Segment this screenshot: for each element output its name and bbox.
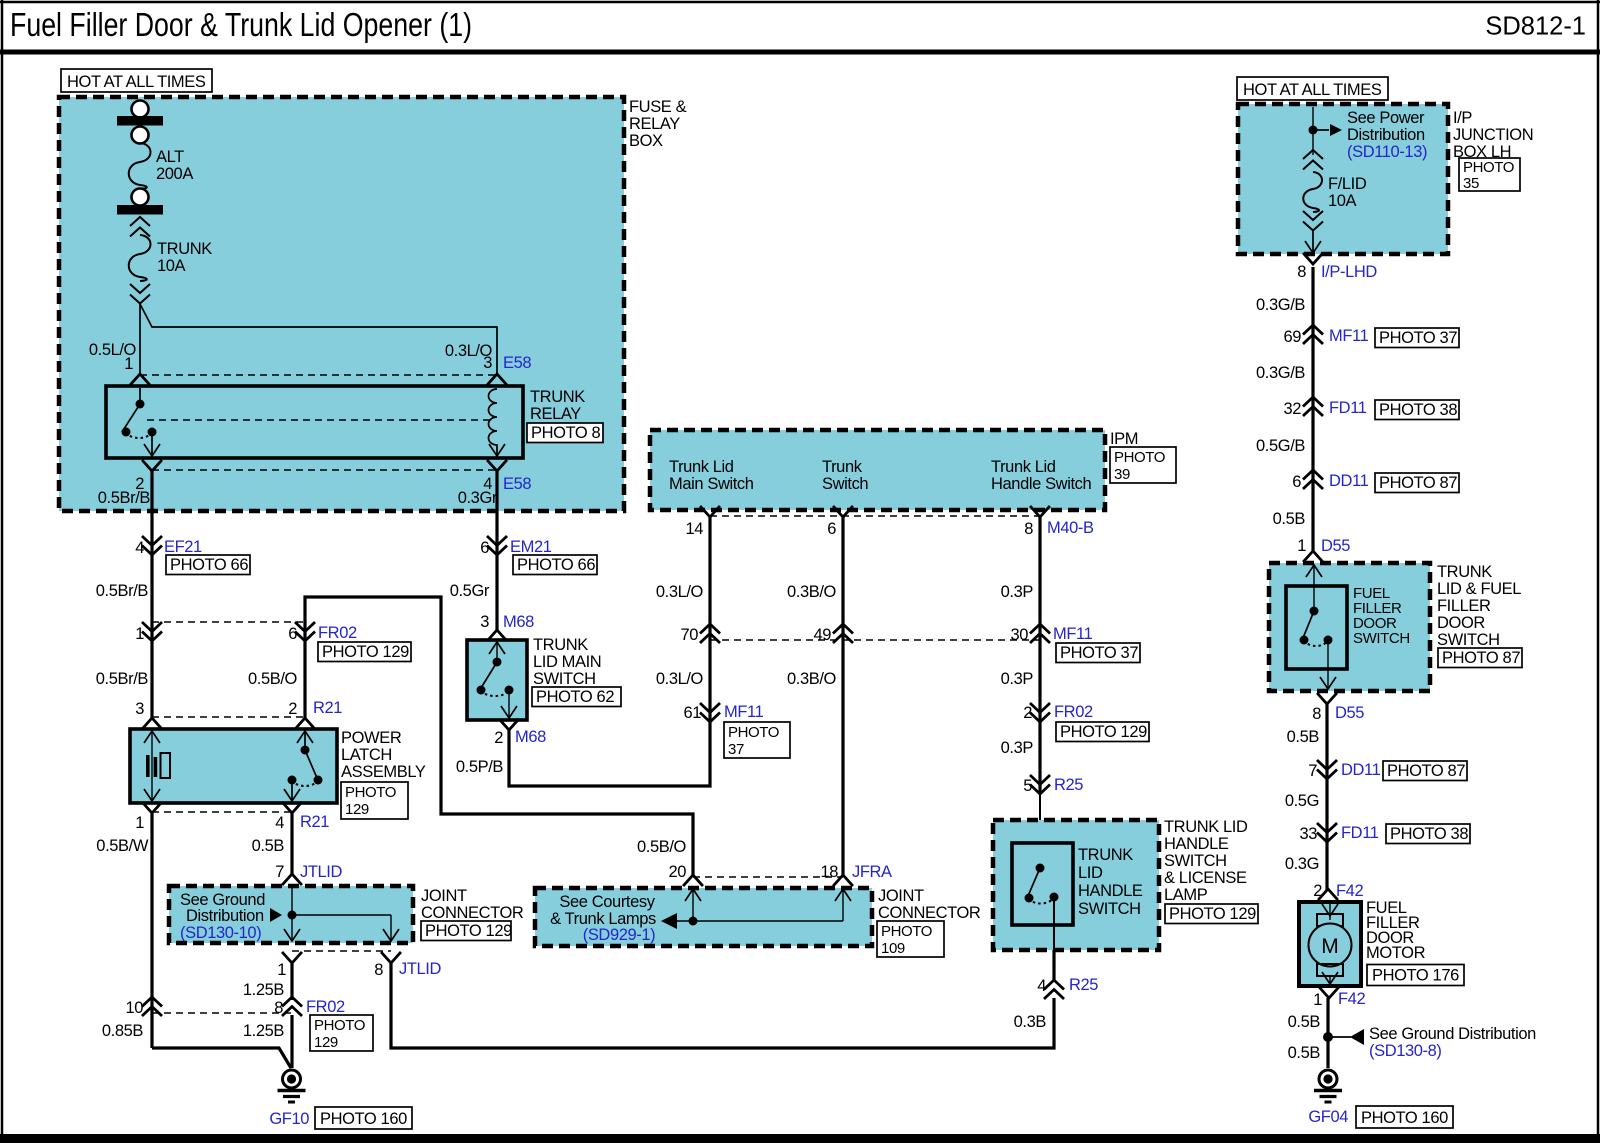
connector dashed line E58 bottom	[152, 469, 497, 471]
svg-text:ASSEMBLY: ASSEMBLY	[341, 763, 426, 781]
svg-text:8: 8	[1312, 705, 1321, 723]
label box PHOTO 129 (FR02 bottom)	[310, 1015, 373, 1051]
label HOT AT ALL TIMES (right)	[1237, 77, 1388, 100]
svg-text:PHOTO: PHOTO	[1463, 159, 1514, 176]
svg-text:JUNCTION: JUNCTION	[1453, 126, 1533, 144]
svg-text:(SD110-13): (SD110-13)	[1347, 143, 1427, 161]
svg-text:PHOTO: PHOTO	[1114, 449, 1165, 466]
wire R21-4 down to JTLID-7	[290, 813, 293, 876]
wire relay pin2 down to EF21	[150, 471, 153, 718]
svg-text:LAMP: LAMP	[1164, 886, 1208, 904]
wire D55-8 to DD11-7	[1325, 704, 1328, 890]
label box PHOTO 160 (GF04)	[1356, 1106, 1453, 1128]
junction box internal feed	[1309, 107, 1343, 155]
svg-text:0.5B: 0.5B	[1287, 728, 1320, 746]
svg-text:0.5Gr: 0.5Gr	[450, 582, 490, 600]
svg-text:RELAY: RELAY	[530, 405, 581, 423]
connector JTLID dashed line (pins 1,8)	[292, 950, 391, 952]
svg-text:& LICENSE: & LICENSE	[1164, 869, 1247, 887]
handle switch contacts	[1025, 864, 1059, 983]
svg-text:69: 69	[1283, 328, 1301, 346]
svg-text:F42: F42	[1338, 990, 1365, 1008]
wire JTLID-1 down to FR02-8	[290, 963, 293, 1000]
wire M68-2 to MF11-61	[509, 640, 710, 786]
wire IPM-14 down	[708, 517, 711, 640]
svg-text:FR02: FR02	[318, 624, 357, 642]
wire split X junction	[140, 303, 497, 375]
wire R25-5 into handle switch	[1039, 794, 1041, 868]
JTLID internal wiring	[270, 888, 399, 941]
svg-text:35: 35	[1463, 175, 1479, 192]
connector dashed line E58 top	[140, 374, 497, 376]
svg-text:JOINT: JOINT	[421, 887, 467, 905]
trunk lid handle switch box	[993, 820, 1159, 950]
svg-text:R21: R21	[300, 813, 329, 831]
svg-text:Trunk Lid: Trunk Lid	[669, 458, 734, 476]
M68 pin 3 caret	[488, 630, 506, 640]
svg-text:BOX: BOX	[629, 132, 663, 150]
svg-text:PHOTO: PHOTO	[881, 923, 932, 940]
svg-text:LATCH: LATCH	[341, 746, 392, 764]
svg-text:PHOTO 87: PHOTO 87	[1442, 649, 1520, 667]
label JOINT CONNECTOR (JFRA)	[878, 887, 981, 922]
svg-text:F42: F42	[1336, 882, 1363, 900]
svg-text:30: 30	[1010, 626, 1028, 644]
label box PHOTO 129 (FR02-2)	[1056, 722, 1149, 742]
label HOT AT ALL TIMES (left)	[61, 69, 212, 92]
svg-text:0.5Br/B: 0.5Br/B	[96, 670, 149, 688]
label See Courtesy & Trunk Lamps (SD929-1)	[550, 893, 656, 944]
label See Ground Distribution (SD130-8)	[1369, 1025, 1536, 1060]
svg-text:PHOTO 38: PHOTO 38	[1390, 825, 1468, 843]
svg-text:PHOTO: PHOTO	[314, 1017, 365, 1034]
wire FR02-10 to ground	[152, 1048, 291, 1068]
IPM connector dashed line M40-B	[710, 515, 1040, 517]
svg-text:18: 18	[820, 863, 838, 881]
svg-text:Main Switch: Main Switch	[669, 475, 754, 493]
latch mechanical symbol	[146, 753, 170, 778]
label FUSE & RELAY BOX	[629, 98, 687, 150]
svg-text:SWITCH: SWITCH	[533, 670, 596, 688]
label See Power Distribution (SD110-13)	[1347, 109, 1427, 161]
svg-text:Trunk: Trunk	[822, 458, 863, 476]
latch feed line with arrows	[144, 731, 160, 801]
R21 pin 3 caret	[143, 718, 161, 728]
svg-text:E58: E58	[503, 354, 531, 372]
svg-text:Fuel Filler Door & Trunk Lid O: Fuel Filler Door & Trunk Lid Opener (1)	[10, 6, 472, 43]
FD11 pin 32 chevron	[1304, 397, 1322, 415]
svg-text:1: 1	[277, 961, 286, 979]
svg-text:61: 61	[683, 704, 701, 722]
svg-text:0.3P: 0.3P	[1001, 739, 1034, 757]
wire R21-1 down to FR02-10	[150, 813, 153, 1048]
svg-text:0.3B/O: 0.3B/O	[787, 670, 837, 688]
svg-text:2: 2	[288, 700, 297, 718]
trunk lid main switch contacts	[477, 642, 518, 718]
ground GF10	[278, 1070, 306, 1102]
svg-text:6: 6	[1292, 473, 1301, 491]
svg-text:R21: R21	[313, 699, 342, 717]
label box PHOTO 37 (MF11-61)	[724, 722, 790, 758]
svg-text:0.5P/B: 0.5P/B	[456, 758, 504, 776]
svg-text:PHOTO 8: PHOTO 8	[531, 424, 601, 442]
svg-text:0.3G/B: 0.3G/B	[1256, 364, 1305, 382]
svg-text:JTLID: JTLID	[300, 863, 342, 881]
svg-text:MF11: MF11	[724, 703, 764, 721]
svg-text:POWER: POWER	[341, 729, 402, 747]
svg-text:0.3Gr: 0.3Gr	[458, 489, 498, 507]
svg-text:0.3B/O: 0.3B/O	[787, 583, 837, 601]
label TRUNK LID HANDLE SWITCH (inside)	[1078, 846, 1143, 918]
connector MF11 dashed line (70,49,30)	[710, 639, 1040, 641]
svg-text:49: 49	[813, 626, 831, 644]
pin 4 caret	[488, 461, 506, 471]
svg-text:PHOTO 62: PHOTO 62	[536, 688, 614, 706]
svg-text:SWITCH: SWITCH	[1164, 852, 1227, 870]
ground GF04	[1314, 1070, 1342, 1102]
svg-text:14: 14	[685, 520, 703, 538]
svg-text:129: 129	[345, 801, 369, 818]
svg-text:CONNECTOR: CONNECTOR	[878, 904, 981, 922]
svg-text:PHOTO 160: PHOTO 160	[320, 1110, 407, 1128]
connector R21 dashed line (pins 1,4)	[152, 811, 292, 813]
fusible link ALT 200A	[117, 101, 193, 215]
svg-text:DD11: DD11	[1341, 761, 1381, 779]
svg-text:FD11: FD11	[1341, 824, 1379, 842]
svg-text:TRUNK: TRUNK	[1078, 846, 1133, 864]
IPM internal label Trunk Lid Handle Switch	[991, 458, 1091, 493]
trunk relay box	[106, 386, 523, 458]
svg-text:PHOTO 129: PHOTO 129	[425, 922, 512, 940]
FD11 pin 33 chevron	[1318, 824, 1336, 842]
svg-text:Handle Switch: Handle Switch	[991, 475, 1091, 493]
svg-text:Trunk Lid: Trunk Lid	[991, 458, 1056, 476]
label box PHOTO 129 (latch)	[341, 782, 408, 819]
R21 pin 1 caret	[143, 803, 161, 813]
pin 1 caret	[131, 374, 149, 384]
MF11 pin 69 chevron	[1304, 325, 1322, 343]
svg-text:FR02: FR02	[1054, 703, 1093, 721]
DD11 pin 7 chevron	[1318, 761, 1336, 779]
courtesy box internal wiring	[661, 889, 851, 929]
svg-text:HOT AT ALL TIMES: HOT AT ALL TIMES	[1243, 81, 1382, 99]
svg-text:20: 20	[668, 863, 686, 881]
svg-text:See Ground Distribution: See Ground Distribution	[1369, 1025, 1536, 1043]
fuse F/LID 10A	[1303, 150, 1367, 253]
I/P junction box LH	[1238, 104, 1448, 254]
svg-text:0.5B: 0.5B	[1273, 510, 1306, 528]
power latch assembly box	[130, 729, 337, 803]
label box PHOTO 38 (FD11-33)	[1386, 824, 1470, 844]
svg-text:8: 8	[374, 961, 383, 979]
svg-text:IPM: IPM	[1110, 430, 1138, 448]
pin 2 caret	[143, 461, 161, 471]
svg-text:M68: M68	[515, 728, 546, 746]
svg-text:TRUNK: TRUNK	[157, 240, 212, 258]
svg-text:SWITCH: SWITCH	[1437, 631, 1500, 649]
svg-text:2: 2	[1023, 704, 1032, 722]
svg-text:3: 3	[480, 613, 489, 631]
svg-text:PHOTO 66: PHOTO 66	[170, 556, 248, 574]
svg-text:SWITCH: SWITCH	[1353, 630, 1410, 647]
connector FR02 dashed line (pins 10,8)	[152, 1012, 292, 1014]
svg-text:M: M	[1321, 935, 1339, 958]
svg-text:HANDLE: HANDLE	[1164, 835, 1229, 853]
svg-text:0.5B: 0.5B	[1288, 1044, 1321, 1062]
svg-text:HOT AT ALL TIMES: HOT AT ALL TIMES	[67, 73, 206, 91]
svg-text:4: 4	[135, 539, 144, 557]
FR02 pin 2 chevron	[1031, 704, 1049, 722]
svg-text:4: 4	[275, 814, 284, 832]
label box PHOTO 87 (switch)	[1438, 648, 1522, 668]
svg-text:R25: R25	[1069, 976, 1098, 994]
svg-text:0.5Br/B: 0.5Br/B	[98, 489, 151, 507]
connector FR02 dashed line (pins 1,6)	[152, 621, 305, 623]
label box PHOTO 129 (FR02)	[318, 642, 411, 662]
svg-text:See Courtesy: See Courtesy	[559, 893, 655, 911]
label I/P JUNCTION BOX LH	[1453, 109, 1533, 161]
svg-text:129: 129	[314, 1034, 338, 1051]
svg-text:MF11: MF11	[1053, 625, 1093, 643]
trunk lid & fuel filler door switch box	[1269, 563, 1430, 691]
label box PHOTO 37 (MF11-30)	[1056, 643, 1140, 663]
trunk lid main switch box	[467, 640, 527, 720]
svg-text:SD812-1: SD812-1	[1485, 13, 1586, 41]
JTLID pin 8 caret	[382, 953, 400, 963]
svg-text:TRUNK: TRUNK	[1437, 563, 1492, 581]
svg-text:0.3P: 0.3P	[1001, 583, 1034, 601]
svg-text:7: 7	[275, 863, 284, 881]
svg-text:1: 1	[1297, 537, 1306, 555]
svg-text:0.5B: 0.5B	[252, 837, 285, 855]
svg-text:PHOTO 160: PHOTO 160	[1361, 1109, 1448, 1127]
svg-text:FR02: FR02	[306, 998, 345, 1016]
svg-text:10: 10	[125, 999, 143, 1017]
wire F42-1 to ground GF04	[1326, 998, 1329, 1068]
svg-text:0.5B/O: 0.5B/O	[637, 838, 687, 856]
svg-text:3: 3	[483, 354, 492, 372]
handle switch inner box	[1012, 843, 1073, 925]
svg-text:Distribution: Distribution	[1347, 126, 1425, 144]
I/P-LHD pin 8 caret	[1304, 254, 1322, 264]
svg-text:0.5B/O: 0.5B/O	[248, 670, 298, 688]
svg-text:1: 1	[1313, 991, 1322, 1009]
svg-text:Distribution: Distribution	[186, 907, 264, 925]
label FUEL FILLER DOOR SWITCH (inside)	[1353, 585, 1410, 647]
svg-text:(SD130-8): (SD130-8)	[1369, 1042, 1442, 1060]
svg-text:Switch: Switch	[822, 475, 868, 493]
svg-text:RELAY: RELAY	[629, 115, 680, 133]
label JOINT CONNECTOR	[421, 887, 524, 922]
label box PHOTO 38 (FD11-32)	[1375, 400, 1459, 420]
svg-text:6: 6	[288, 625, 297, 643]
label box PHOTO 35	[1459, 158, 1520, 192]
svg-text:0.3L/O: 0.3L/O	[656, 583, 704, 601]
IPM pin 8 caret	[1031, 507, 1049, 517]
FR02 pin 6 chevron	[296, 623, 314, 641]
svg-text:TRUNK: TRUNK	[533, 636, 588, 654]
label box PHOTO 8	[527, 423, 603, 443]
svg-text:GF04: GF04	[1308, 1108, 1348, 1126]
svg-text:R25: R25	[1054, 776, 1083, 794]
D55 pin 8 caret	[1318, 694, 1336, 704]
svg-text:See Power: See Power	[1347, 109, 1425, 127]
label box PHOTO 87 (DD11-7)	[1383, 761, 1467, 781]
svg-text:M68: M68	[503, 613, 534, 631]
connector R21 dashed line (pins 3,2)	[152, 716, 305, 718]
label box PHOTO 129 (handle switch)	[1165, 904, 1258, 924]
svg-text:1: 1	[124, 355, 133, 373]
svg-text:0.5B/W: 0.5B/W	[96, 837, 149, 855]
svg-text:PHOTO 38: PHOTO 38	[1379, 401, 1457, 419]
IPM internal label Trunk Lid Main Switch	[669, 458, 754, 493]
svg-text:JTLID: JTLID	[399, 960, 441, 978]
svg-text:109: 109	[881, 940, 905, 957]
label box PHOTO 39	[1110, 447, 1176, 483]
JTLID pin 7 caret	[283, 874, 301, 884]
svg-text:0.3P: 0.3P	[1001, 670, 1034, 688]
MF11 pin 30 chevron	[1031, 624, 1049, 642]
svg-text:5: 5	[1023, 777, 1032, 795]
svg-text:PHOTO 37: PHOTO 37	[1060, 644, 1138, 662]
fuse & relay box	[59, 97, 624, 511]
svg-text:4: 4	[1037, 977, 1046, 995]
wire IPM-8 down	[1038, 517, 1041, 794]
svg-text:6: 6	[480, 539, 489, 557]
connector JFRA dashed line (20,18)	[693, 876, 843, 878]
wire IPM-6 down to JFRA-18	[841, 517, 844, 875]
svg-text:32: 32	[1283, 400, 1301, 418]
ground branch junction	[1323, 1029, 1364, 1045]
wire relay pin4 down to EM21	[495, 471, 498, 630]
svg-text:PHOTO 87: PHOTO 87	[1379, 474, 1457, 492]
label box PHOTO 129 (JTLID)	[421, 921, 512, 941]
svg-text:33: 33	[1299, 825, 1317, 843]
svg-text:JOINT: JOINT	[878, 887, 924, 905]
svg-text:I/P-LHD: I/P-LHD	[1321, 263, 1377, 281]
motor symbol	[1309, 904, 1352, 986]
R25 pin 4 chevron	[1045, 980, 1063, 998]
svg-text:10A: 10A	[157, 257, 186, 275]
svg-text:(SD130-10): (SD130-10)	[180, 924, 261, 942]
svg-text:3: 3	[135, 700, 144, 718]
svg-text:39: 39	[1114, 466, 1130, 483]
svg-text:PHOTO 66: PHOTO 66	[517, 556, 595, 574]
svg-text:DD11: DD11	[1329, 472, 1369, 490]
svg-text:0.5B: 0.5B	[1288, 1013, 1321, 1031]
label box PHOTO 66 (EM21)	[513, 555, 597, 575]
fuel filler door motor box	[1299, 902, 1361, 986]
svg-text:PHOTO 129: PHOTO 129	[1169, 905, 1256, 923]
svg-text:8: 8	[1024, 520, 1033, 538]
svg-text:0.5G: 0.5G	[1285, 792, 1319, 810]
svg-text:0.3L/O: 0.3L/O	[656, 670, 704, 688]
JFRA pin 20 caret	[684, 875, 702, 885]
svg-text:PHOTO: PHOTO	[345, 784, 396, 801]
svg-text:HANDLE: HANDLE	[1078, 882, 1143, 900]
IPM pin 14 caret	[701, 507, 719, 517]
label box PHOTO 37 (MF11-69)	[1375, 328, 1459, 348]
label TRUNK RELAY	[530, 388, 585, 423]
svg-text:2: 2	[494, 729, 503, 747]
fuse TRUNK 10A	[129, 217, 212, 304]
svg-text:6: 6	[827, 520, 836, 538]
svg-text:LID MAIN: LID MAIN	[533, 653, 601, 671]
label box PHOTO 160 (GF10)	[315, 1107, 412, 1129]
R21 pin 2 caret	[296, 718, 314, 728]
svg-text:PHOTO: PHOTO	[728, 724, 779, 741]
connector EF21 chevron	[143, 537, 161, 555]
svg-text:70: 70	[680, 626, 698, 644]
FR02 pin 1 chevron	[143, 623, 161, 641]
svg-text:SWITCH: SWITCH	[1078, 900, 1141, 918]
svg-text:LID: LID	[1078, 864, 1103, 882]
svg-text:EM21: EM21	[510, 538, 552, 556]
svg-text:10A: 10A	[1328, 192, 1357, 210]
IPM pin 6 caret	[834, 507, 852, 517]
see courtesy & trunk lamps box	[535, 888, 872, 946]
R25 pin 5 chevron	[1031, 776, 1049, 794]
svg-text:CONNECTOR: CONNECTOR	[421, 904, 524, 922]
label box PHOTO 62	[532, 687, 621, 707]
IPM box	[650, 430, 1105, 510]
relay coil	[489, 389, 506, 456]
svg-text:0.3G/B: 0.3G/B	[1256, 296, 1305, 314]
svg-text:TRUNK: TRUNK	[530, 388, 585, 406]
M68 pin 2 caret	[500, 720, 518, 730]
MF11 pin 70 chevron	[701, 624, 719, 642]
IPM internal label Trunk Switch	[822, 458, 868, 493]
svg-text:PHOTO 37: PHOTO 37	[1379, 329, 1457, 347]
DD11 pin 6 chevron	[1304, 470, 1322, 488]
svg-text:0.5G/B: 0.5G/B	[1256, 437, 1305, 455]
svg-text:I/P: I/P	[1453, 109, 1472, 127]
R21 pin 4 caret	[283, 803, 301, 813]
wire FR02-6 down to R21-2	[303, 622, 306, 718]
label POWER LATCH ASSEMBLY	[341, 729, 426, 781]
label box PHOTO 87 (DD11-6)	[1375, 473, 1459, 493]
label box PHOTO 176	[1367, 965, 1464, 986]
svg-text:GF10: GF10	[269, 1110, 309, 1128]
label TRUNK LID MAIN SWITCH	[533, 636, 601, 688]
svg-text:MF11: MF11	[1329, 327, 1369, 345]
svg-text:200A: 200A	[156, 165, 193, 183]
relay switch contacts	[122, 388, 161, 456]
svg-text:FILLER: FILLER	[1437, 597, 1491, 615]
svg-text:PHOTO 87: PHOTO 87	[1387, 762, 1465, 780]
svg-text:D55: D55	[1321, 537, 1350, 555]
wire I/P-LHD to MF11-69	[1311, 267, 1314, 551]
svg-text:0.3B: 0.3B	[1014, 1013, 1047, 1031]
svg-text:PHOTO 176: PHOTO 176	[1372, 967, 1459, 985]
svg-text:F/LID: F/LID	[1328, 175, 1367, 193]
label See Ground Distribution (SD130-10)	[180, 891, 265, 942]
MF11 pin 61 chevron	[701, 704, 719, 722]
FR02 pin 10 chevron	[143, 997, 161, 1015]
svg-text:D55: D55	[1335, 704, 1364, 722]
D55 pin 1 caret	[1304, 551, 1322, 561]
fuel filler door switch inner box	[1286, 586, 1347, 669]
svg-text:(SD929-1): (SD929-1)	[583, 926, 656, 944]
label TRUNK LID HANDLE SWITCH & LICENSE LAMP	[1164, 818, 1248, 904]
label box PHOTO 66 (EF21)	[166, 555, 250, 575]
svg-text:M40-B: M40-B	[1047, 519, 1094, 537]
svg-text:FUSE &: FUSE &	[629, 98, 687, 116]
svg-text:1.25B: 1.25B	[243, 1022, 285, 1040]
svg-text:LID & FUEL: LID & FUEL	[1437, 580, 1521, 598]
label TRUNK LID & FUEL FILLER DOOR SWITCH	[1437, 563, 1521, 649]
svg-text:37: 37	[728, 741, 744, 758]
